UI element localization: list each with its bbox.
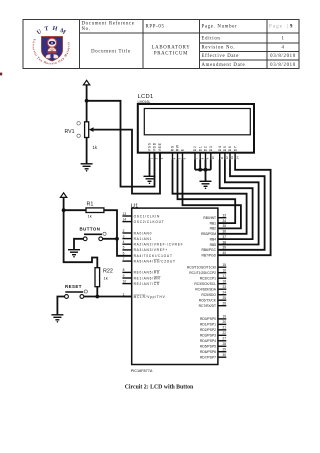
svg-text:D4: D4: [218, 146, 222, 152]
U1 right pin 36 RB3/PGM: [201, 230, 226, 237]
svg-text:RC0/T1OSO/T1CKI: RC0/T1OSO/T1CKI: [187, 266, 216, 270]
LCD pin 10 D3: [209, 146, 215, 160]
svg-text:26: 26: [222, 302, 226, 306]
svg-text:VDD: VDD: [153, 142, 157, 151]
svg-text:38: 38: [222, 240, 226, 244]
svg-text:MCLR/Vpp/THV: MCLR/Vpp/THV: [134, 295, 166, 299]
U1 right pin 16 RC1/T1OSI/CCP2: [189, 269, 226, 276]
svg-text:RA5/AN4/SS/C2OUT: RA5/AN4/SS/C2OUT: [134, 259, 176, 263]
ground G1 under RV1: [81, 164, 93, 172]
U1 right pin 24 RC5/SDO: [201, 291, 226, 298]
svg-text:RD5/PSP5: RD5/PSP5: [200, 345, 216, 349]
U1 right pin 23 RC4/SDI/SDA: [195, 285, 226, 292]
svg-text:8: 8: [123, 268, 125, 272]
U1 left pin 1 MCLR/Vpp/THV: [122, 292, 165, 299]
svg-text:03/8/2010: 03/8/2010: [270, 63, 296, 68]
UTHM logo emblem: [31, 26, 70, 66]
svg-text:RW: RW: [176, 144, 180, 151]
wire BUTTON right to node: [103, 238, 117, 240]
wire branch to LCD VDD: [87, 101, 155, 187]
svg-text:D6: D6: [228, 146, 232, 152]
U1 right pin 33 RB0/INT: [203, 214, 226, 221]
microcontroller U1 PIC16F877A: [131, 203, 218, 372]
wire P1 down to RV1 top: [86, 85, 88, 122]
svg-text:Edition: Edition: [202, 37, 221, 42]
LCD display LCD1 LM016L: [138, 94, 255, 160]
svg-text:VEE: VEE: [158, 142, 162, 151]
svg-text:36: 36: [222, 230, 226, 234]
LCD pin 2 VDD: [153, 142, 159, 159]
LCD pin 11 D4: [218, 146, 224, 160]
svg-text:RC5/SDO: RC5/SDO: [201, 293, 216, 297]
header table text: [82, 22, 296, 68]
wire BUTTON left to ground: [74, 239, 83, 250]
svg-text:4: 4: [123, 240, 125, 244]
svg-text:RA1/AN1: RA1/AN1: [134, 237, 153, 241]
svg-text:PIC16F877A: PIC16F877A: [131, 369, 153, 373]
wire R1 right to button node then PIC RA4: [104, 210, 132, 256]
LCD pin 5 RW: [176, 144, 182, 159]
power +5V arrow P2 (button/R22 supply): [60, 193, 66, 198]
svg-text:22: 22: [222, 331, 226, 335]
LCD pin 4 RS: [171, 145, 177, 159]
U1 right pin 21 RD2/PSP2: [200, 326, 226, 333]
svg-text:D1: D1: [198, 146, 202, 152]
svg-text:1: 1: [281, 37, 284, 42]
svg-text:34: 34: [222, 219, 226, 223]
wire P2 rail down and jog to R22 top: [64, 197, 98, 268]
ground G5 under RESET: [51, 315, 63, 323]
U1 right pin 28 RD5/PSP5: [200, 342, 226, 349]
svg-text:RB2: RB2: [210, 227, 217, 231]
svg-text:RB0/INT: RB0/INT: [203, 216, 216, 220]
svg-text:Document Title: Document Title: [91, 50, 131, 55]
wire LCD E to PIC RB2: [183, 160, 241, 229]
svg-text:33: 33: [222, 214, 226, 218]
svg-text:RE0/AN5/RD: RE0/AN5/RD: [134, 271, 160, 275]
U1 left pin 13 OSC1/CLKIN: [122, 212, 160, 219]
junction dot node BUTTON/RA4: [115, 237, 119, 241]
svg-text:15: 15: [222, 263, 226, 267]
svg-text:37: 37: [222, 235, 226, 239]
wire RESET right through node to PIC MCLR: [84, 296, 132, 298]
LCD pin 9 D2: [204, 146, 210, 160]
svg-text:RB3/PGM: RB3/PGM: [201, 232, 216, 236]
wire RESET left to ground: [57, 297, 64, 315]
push button BUTTON: [80, 227, 107, 241]
U1 left pin 5 RA3/AN3/VREF+: [122, 246, 167, 253]
LCD pin 3 VEE: [158, 142, 164, 159]
junction dot node D2 tie: [204, 168, 208, 172]
svg-text:19: 19: [222, 315, 226, 319]
U1 right pin 18 RC3/SCK/SCL: [194, 280, 226, 287]
red page-edge mark: [0, 73, 2, 76]
svg-text:20: 20: [222, 320, 226, 324]
push button RESET: [65, 284, 88, 298]
U1 right pin 20 RD1/PSP1: [200, 320, 226, 327]
wire RV1 bottom to ground: [86, 138, 88, 164]
U1 right pin 29 RD6/PSP6: [200, 348, 226, 355]
svg-text:Page. Number: Page. Number: [202, 25, 238, 30]
svg-text:23: 23: [222, 285, 226, 289]
svg-text:RC3/SCK/SCL: RC3/SCK/SCL: [194, 282, 216, 286]
U1 left pin 2 RA0/AN0: [122, 229, 152, 236]
U1 left pin 14 OSC2/CLKOUT: [122, 217, 164, 224]
wire LCD D6 to PIC RB6: [218, 160, 265, 250]
U1 right pin 17 RC2/CCP1: [200, 274, 227, 281]
wire LCD D5 to PIC RB5: [218, 160, 259, 245]
svg-text:RC4/SDI/SDA: RC4/SDI/SDA: [195, 288, 217, 292]
LCD pin 1 VSS: [148, 142, 154, 159]
svg-text:28: 28: [222, 342, 226, 346]
U1 right pin 30 RD7/PSP7: [200, 353, 226, 360]
svg-text:D2: D2: [204, 146, 208, 152]
svg-text:RA0/AN0: RA0/AN0: [134, 231, 153, 235]
LCD pin 8 D1: [198, 146, 204, 160]
svg-text:RE1/AN6/WR: RE1/AN6/WR: [134, 276, 161, 280]
svg-text:D5: D5: [223, 146, 227, 152]
svg-text:RB6/PGC: RB6/PGC: [202, 248, 217, 252]
U1 right pin 22 RD3/PSP3: [200, 331, 226, 338]
wire RV1 wiper to LCD VEE: [94, 130, 160, 194]
svg-text:D0: D0: [193, 146, 197, 152]
svg-text:RD0/PSP0: RD0/PSP0: [200, 317, 216, 321]
wire LCD VSS to ground: [149, 160, 151, 177]
svg-text:RC1/T1OSI/CCP2: RC1/T1OSI/CCP2: [189, 271, 216, 275]
svg-text:03/8/2010: 03/8/2010: [270, 54, 296, 59]
U1 right pin 27 RD4/PSP4: [200, 337, 226, 344]
svg-text:Revision No.: Revision No.: [202, 46, 236, 51]
svg-text:17: 17: [222, 274, 226, 278]
svg-text:Amendment Date: Amendment Date: [202, 63, 246, 68]
svg-text:27: 27: [222, 337, 226, 341]
potentiometer RV1: [65, 122, 98, 150]
svg-text:Document Reference: Document Reference: [82, 22, 135, 27]
svg-text:RA2/AN2/VREF-/CVREF: RA2/AN2/VREF-/CVREF: [134, 243, 184, 247]
svg-text:RB5: RB5: [210, 243, 217, 247]
svg-text:25: 25: [222, 296, 226, 300]
svg-text:5: 5: [123, 246, 125, 250]
svg-text:D3: D3: [209, 146, 213, 152]
wire LCD RW to PIC RB1: [178, 160, 236, 224]
svg-text:RA3/AN3/VREF+: RA3/AN3/VREF+: [134, 248, 168, 252]
svg-text:RC7/RX/DT: RC7/RX/DT: [199, 304, 216, 308]
svg-text:39: 39: [222, 246, 226, 250]
wire LCD RS to PIC RB3: [173, 160, 247, 234]
U1 right pin 19 RD0/PSP0: [200, 315, 226, 322]
svg-text:RC6/TX/CK: RC6/TX/CK: [199, 299, 217, 303]
svg-text:RB7/PGD: RB7/PGD: [202, 254, 217, 258]
svg-text:RPP-05: RPP-05: [146, 25, 165, 30]
U1 left pin 4 RA2/AN2/VREF-/CVREF: [122, 240, 183, 247]
svg-text:6: 6: [123, 252, 125, 256]
svg-text:7: 7: [123, 257, 125, 261]
svg-text:No.: No.: [82, 27, 91, 32]
LCD pin 6 E: [181, 148, 187, 159]
svg-text:RB4: RB4: [210, 237, 217, 241]
LCD pin 7 D0: [193, 146, 199, 160]
svg-text:BUTTON: BUTTON: [80, 227, 101, 232]
svg-text:R1: R1: [87, 202, 94, 208]
svg-text:RD7/PSP7: RD7/PSP7: [200, 355, 216, 359]
svg-text:OSC1/CLKIN: OSC1/CLKIN: [134, 214, 160, 218]
U1 left pin 7 RA5/AN4/SS/C2OUT: [122, 257, 175, 264]
svg-text:RE2/AN7/CS: RE2/AN7/CS: [134, 282, 160, 286]
svg-text:Effective Date: Effective Date: [202, 54, 240, 59]
svg-text:21: 21: [222, 326, 226, 330]
svg-text:1k: 1k: [88, 214, 92, 219]
svg-text:3: 3: [123, 234, 125, 238]
svg-text:Circuit 2: LCD with Button: Circuit 2: LCD with Button: [125, 385, 194, 391]
svg-text:13: 13: [123, 212, 127, 216]
wire LCD D4 to PIC RB4: [218, 160, 253, 240]
power +5V arrow P1 (pot/VDD supply): [83, 80, 89, 85]
resistor R22 1k: [95, 268, 113, 287]
svg-text:RD3/PSP3: RD3/PSP3: [200, 334, 216, 338]
wire LCD D7 to PIC RB7: [218, 160, 271, 256]
svg-text:40: 40: [222, 251, 226, 255]
svg-text:RC2/CCP1: RC2/CCP1: [200, 277, 216, 281]
svg-text:29: 29: [222, 348, 226, 352]
wire R22 bottom to MCLR net: [96, 287, 98, 297]
U1 right pin 25 RC6/TX/CK: [199, 296, 227, 303]
LCD pin 14 D7: [233, 146, 239, 160]
U1 left pin 6 RA4/T0CKI/C1OUT: [122, 252, 172, 259]
junction dot node VDD-branch: [85, 99, 89, 103]
wire rail to R1 left: [64, 209, 86, 211]
U1 right pin 40 RB7/PGD: [202, 251, 227, 258]
header table frame: [23, 19, 299, 68]
wire D0-D3 tie to ground: [195, 160, 211, 182]
svg-text:1k: 1k: [104, 276, 108, 281]
svg-text:10: 10: [123, 279, 127, 283]
svg-text:E: E: [181, 148, 185, 151]
ground G3 under LCD D0-D3: [200, 181, 212, 189]
U1 left pin 9 RE1/AN6/WR: [122, 274, 160, 281]
U1 left pin 3 RA1/AN1: [122, 234, 152, 241]
svg-text:14: 14: [123, 217, 127, 221]
resistor R1 1k: [86, 202, 104, 219]
svg-text:35: 35: [222, 224, 226, 228]
svg-text:RD1/PSP1: RD1/PSP1: [200, 323, 216, 327]
svg-text:D7: D7: [233, 146, 237, 152]
svg-text:1: 1: [123, 292, 125, 296]
svg-text:RA4/T0CKI/C1OUT: RA4/T0CKI/C1OUT: [134, 254, 173, 258]
junction dot node D1 tie: [198, 168, 202, 172]
svg-text:16: 16: [222, 269, 226, 273]
svg-text:Page: Page: [269, 25, 283, 30]
svg-text:2: 2: [123, 229, 125, 233]
svg-text:30: 30: [222, 353, 226, 357]
svg-text:RD2/PSP2: RD2/PSP2: [200, 328, 216, 332]
ground G4 under BUTTON: [68, 250, 80, 258]
svg-text:VSS: VSS: [148, 142, 152, 151]
svg-text:LABORATORY: LABORATORY: [152, 46, 191, 51]
svg-text:RD4/PSP4: RD4/PSP4: [200, 339, 216, 343]
svg-text:4: 4: [281, 46, 284, 51]
svg-text:RS: RS: [171, 145, 175, 151]
LCD pin 13 D6: [228, 146, 234, 160]
U1 right pin 34 RB1: [210, 219, 227, 226]
svg-text:18: 18: [222, 280, 226, 284]
svg-text:RESET: RESET: [65, 284, 82, 289]
svg-text:RD6/PSP6: RD6/PSP6: [200, 350, 216, 354]
svg-text:24: 24: [222, 291, 226, 295]
svg-text:RB1: RB1: [210, 221, 217, 225]
ground G2 under LCD VSS: [144, 176, 156, 184]
U1 right pin 26 RC7/RX/DT: [199, 302, 227, 309]
junction dot node MCLR: [95, 295, 99, 299]
svg-text:9: 9: [123, 274, 125, 278]
LCD pin 12 D5: [223, 146, 229, 160]
svg-text:PRACTICUM: PRACTICUM: [154, 52, 188, 57]
U1 right pin 35 RB2: [210, 224, 227, 231]
junction dot node R1 feed: [62, 208, 66, 212]
U1 right pin 37 RB4: [210, 235, 227, 242]
U1 right pin 39 RB6/PGC: [202, 246, 227, 253]
U1 right pin 15 RC0/T1OSO/T1CKI: [187, 263, 226, 270]
U1 left pin 10 RE2/AN7/CS: [122, 279, 159, 286]
svg-text:9: 9: [290, 25, 293, 30]
svg-text:|: |: [287, 25, 289, 30]
U1 left pin 8 RE0/AN5/RD: [122, 268, 159, 275]
U1 right pin 38 RB5: [210, 240, 227, 247]
svg-text:RV1: RV1: [65, 129, 75, 135]
svg-text:R22: R22: [103, 268, 113, 274]
svg-text:OSC2/CLKOUT: OSC2/CLKOUT: [134, 220, 165, 224]
